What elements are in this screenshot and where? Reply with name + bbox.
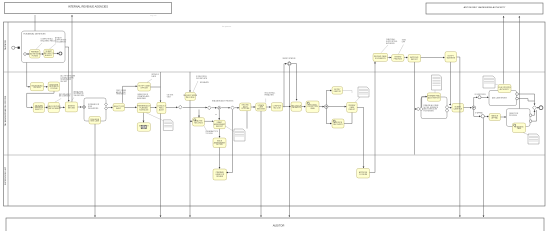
svg-text:TAX ADMINISTRATION OFFICER: TAX ADMINISTRATION OFFICER — [4, 95, 7, 126]
svg-text:ON SITE: ON SITE — [167, 95, 173, 97]
svg-text:DEBTOR: DEBTOR — [334, 91, 342, 93]
svg-text:IDENTITY: IDENTITY — [35, 109, 44, 111]
svg-text:BE COMPLETE: BE COMPLETE — [59, 96, 70, 98]
svg-text:FILE ANNUAL TAX RETURN: FILE ANNUAL TAX RETURN — [24, 33, 47, 36]
svg-text:REGISTER: REGISTER — [257, 108, 266, 110]
svg-text:REPORT: REPORT — [411, 59, 418, 61]
svg-text:AUDITOR: AUDITOR — [273, 224, 285, 228]
svg-text:LOGGED WITHIN: LOGGED WITHIN — [61, 77, 75, 79]
svg-text:SUPERVISOR UNIT: SUPERVISOR UNIT — [5, 166, 7, 185]
svg-text:AUDIT: AUDIT — [159, 108, 164, 111]
svg-text:OUTCOME: OUTCOME — [241, 108, 249, 110]
svg-text:RETURN: RETURN — [68, 107, 76, 109]
svg-text:FORMS: FORMS — [32, 55, 39, 57]
svg-text:DOCUMENTS: DOCUMENTS — [375, 58, 387, 60]
svg-text:OBJECTION: OBJECTION — [509, 113, 519, 115]
svg-text:RECORDS: RECORDS — [194, 122, 203, 124]
svg-text:TAXPAYER: TAXPAYER — [446, 56, 455, 59]
svg-text:24 HOURS OF: 24 HOURS OF — [61, 79, 72, 81]
svg-text:AUTHORITY: AUTHORITY — [500, 88, 511, 91]
svg-text:NOTICE: NOTICE — [141, 127, 147, 129]
svg-text:FINDINGS: FINDINGS — [394, 58, 403, 60]
svg-text:VISIT: VISIT — [167, 96, 171, 98]
svg-text:COMPLETENESS: COMPLETENESS — [47, 108, 62, 110]
svg-text:RECORDS: RECORDS — [186, 97, 195, 99]
svg-text:DOCUMENTS: DOCUMENTS — [55, 41, 67, 43]
svg-text:SCORING OF: SCORING OF — [74, 93, 84, 95]
svg-text:REPORT: REPORT — [216, 126, 223, 128]
svg-text:CASE FILE: CASE FILE — [453, 107, 463, 110]
svg-text:ASSIGNED: ASSIGNED — [137, 97, 147, 100]
svg-text:REVIEW: REVIEW — [216, 176, 223, 178]
svg-text:AGENCY: AGENCY — [45, 54, 53, 57]
svg-text:VERIFY STATUS: VERIFY STATUS — [283, 57, 297, 60]
svg-text:RETURN: RETURN — [34, 87, 42, 89]
svg-text:ANTI MONEY LAUNDERING AUTHORIT: ANTI MONEY LAUNDERING AUTHORITY — [464, 6, 506, 9]
svg-text:RETURN MUST: RETURN MUST — [59, 94, 71, 96]
svg-text:OFFICER: OFFICER — [140, 87, 148, 89]
svg-text:PROCESS: PROCESS — [509, 115, 517, 117]
svg-text:PAYMENTS: PAYMENTS — [292, 106, 302, 109]
svg-text:INCOMPLETE: INCOMPLETE — [196, 78, 208, 80]
svg-text:PENALTIES: PENALTIES — [265, 93, 275, 96]
svg-text:TAXPAYER: TAXPAYER — [4, 39, 7, 50]
svg-text:INTERNAL REVENUE AGENCIES: INTERNAL REVENUE AGENCIES — [68, 4, 108, 8]
svg-text:ESCALATE: ESCALATE — [200, 81, 210, 84]
svg-text:CLOSURE: CLOSURE — [359, 174, 368, 176]
svg-text:EVIDENCE: EVIDENCE — [386, 43, 396, 45]
svg-text:FOR REVIEW: FOR REVIEW — [424, 110, 435, 112]
svg-text:SYSTEM: SYSTEM — [50, 88, 58, 90]
svg-text:OFF: OFF — [402, 41, 405, 43]
svg-text:TOOLING: TOOLING — [206, 133, 214, 135]
svg-text:TAX DUE: TAX DUE — [273, 106, 281, 109]
svg-text:NOTICE: NOTICE — [216, 144, 223, 146]
svg-text:AUDIT: AUDIT — [116, 107, 121, 110]
svg-text:APPEAL: APPEAL — [491, 117, 498, 120]
svg-text:THRESHOLD: THRESHOLD — [116, 94, 127, 96]
svg-text:SCHEDULE: SCHEDULE — [139, 109, 149, 111]
svg-text:RECOVERY: RECOVERY — [333, 124, 343, 126]
svg-text:tax process: tax process — [222, 25, 231, 28]
svg-text:THE RETURN: THE RETURN — [74, 95, 85, 97]
svg-text:no: no — [215, 114, 217, 116]
svg-text:IF SUSPICIOUS: IF SUSPICIOUS — [475, 94, 486, 96]
svg-text:RESULT: RESULT — [349, 109, 356, 111]
svg-text:RECORD: RECORD — [242, 105, 250, 107]
svg-text:INDICATORS: INDICATORS — [88, 107, 99, 110]
svg-text:RECEIPT: RECEIPT — [61, 81, 68, 83]
svg-text:NOTES, EVIDENCE: NOTES, EVIDENCE — [424, 107, 439, 109]
